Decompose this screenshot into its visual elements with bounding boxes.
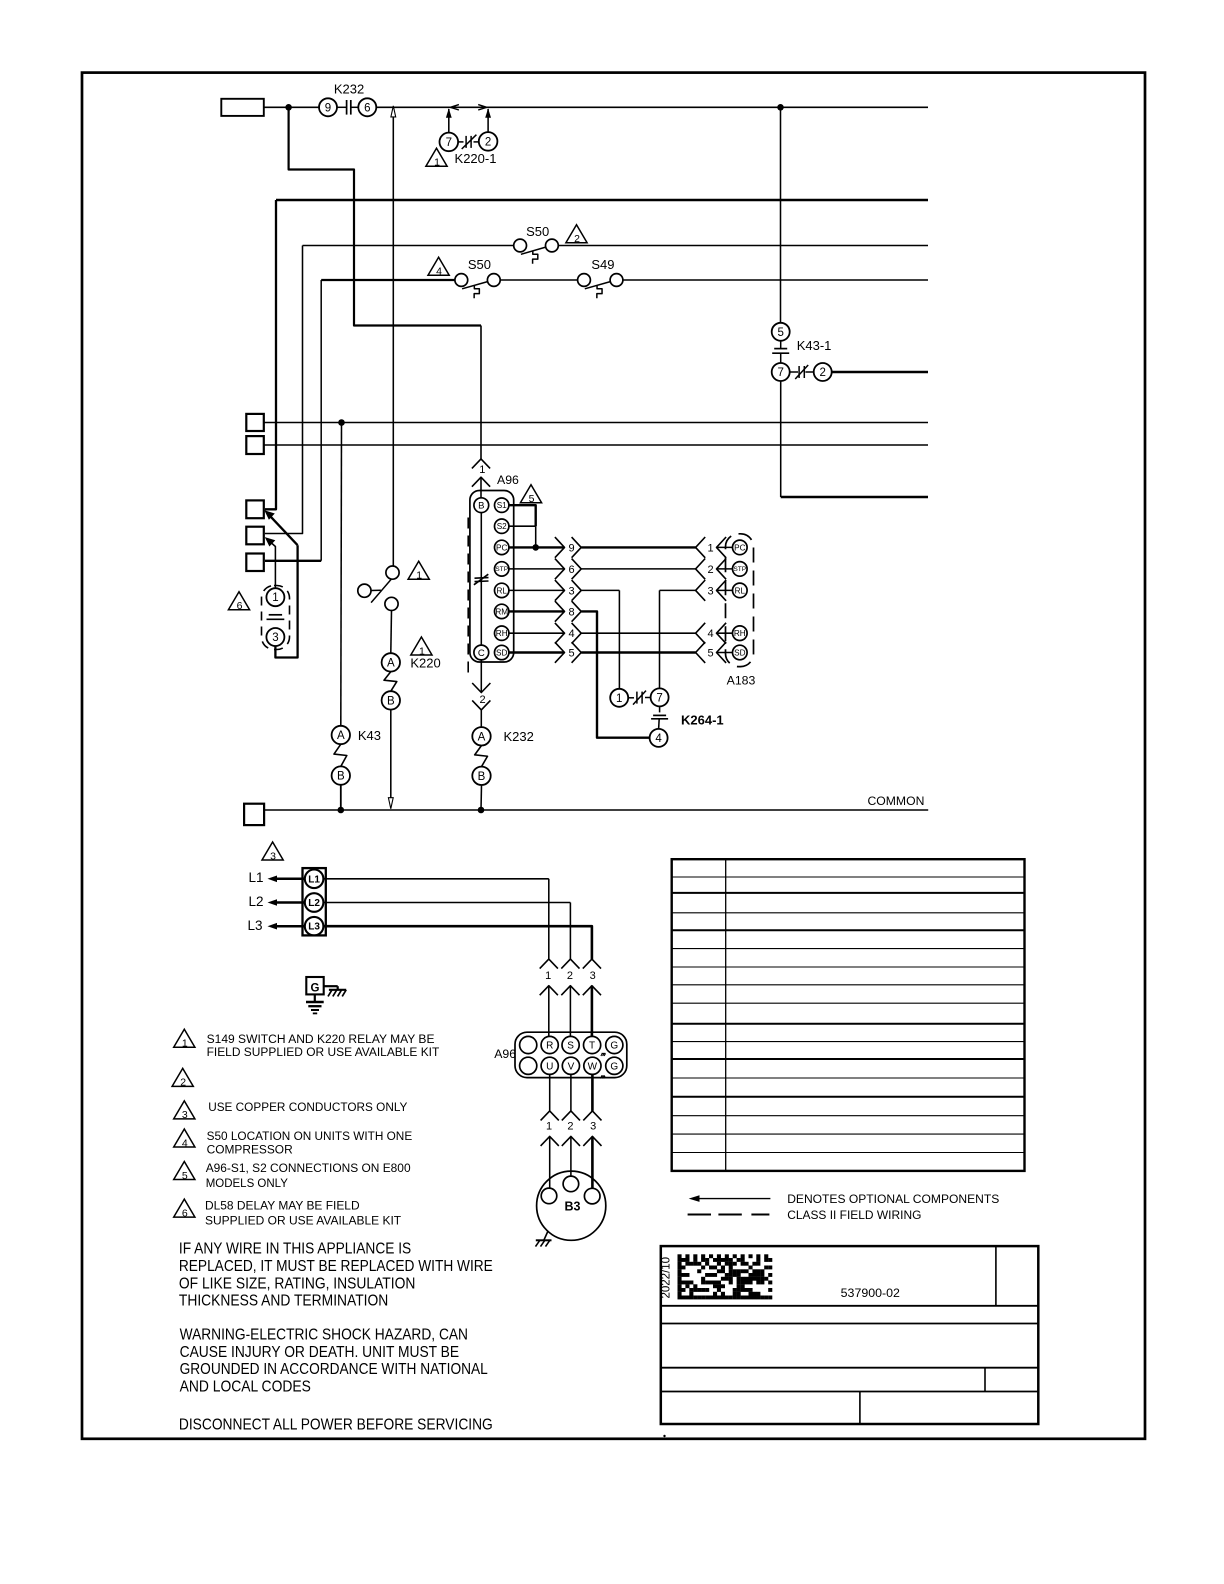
label A183 xyxy=(727,674,756,688)
bus wire COMMON xyxy=(264,809,928,811)
warning paragraph 2 xyxy=(180,1327,488,1396)
relay contact K264-1 pin 1 xyxy=(610,689,628,707)
DL58 capacitor bars xyxy=(267,615,285,620)
connector A96 lower body xyxy=(515,1032,627,1077)
svg-text:A: A xyxy=(337,730,345,742)
svg-text:S50: S50 xyxy=(468,257,491,272)
svg-text:COMPRESSOR: COMPRESSOR xyxy=(207,1143,293,1157)
svg-text:L2: L2 xyxy=(308,898,320,909)
wire U to B3 pin1 xyxy=(549,1074,551,1111)
svg-text:OF LIKE SIZE, RATING, INSULATI: OF LIKE SIZE, RATING, INSULATION xyxy=(179,1276,416,1293)
A96 pin T xyxy=(584,1036,601,1053)
label K43-1 xyxy=(797,338,832,353)
note triangle 3 xyxy=(174,1101,195,1121)
svg-text:6: 6 xyxy=(237,600,243,612)
wire K220-1 pin2 to bus w/ arrow xyxy=(485,108,491,132)
svg-text:S: S xyxy=(567,1041,574,1052)
harness row STP: wire + plug chevrons pin 6 xyxy=(509,559,581,580)
note triangle 1 xyxy=(174,1029,195,1049)
legend table (empty) xyxy=(672,859,1025,1171)
label A96 (upper connector) xyxy=(497,473,519,487)
svg-text:1: 1 xyxy=(546,1121,552,1133)
note triangle 1 at S149 xyxy=(408,561,429,581)
svg-text:CLASS II FIELD WIRING: CLASS II FIELD WIRING xyxy=(787,1208,921,1222)
junction dot K232 at COMMON xyxy=(478,807,485,814)
legend text class II xyxy=(787,1208,921,1222)
bus wire row A (thick) xyxy=(276,199,928,202)
svg-text:B: B xyxy=(387,695,395,707)
harness row STP: receptacle chevrons pin 2 xyxy=(696,559,733,580)
svg-text:PC: PC xyxy=(734,543,745,552)
bus wire row D xyxy=(264,422,928,424)
drawing border frame xyxy=(82,73,1145,1439)
note 3 text xyxy=(208,1100,407,1114)
bus wire row B xyxy=(303,245,929,247)
legend text optional xyxy=(787,1192,999,1206)
svg-text:A: A xyxy=(387,657,395,669)
svg-text:1: 1 xyxy=(545,970,551,982)
A96 pin C xyxy=(474,645,489,660)
contact symbol K264-1 xyxy=(628,691,650,705)
svg-text:4: 4 xyxy=(436,266,442,278)
relay contact K264-1 pin 4 xyxy=(650,729,668,747)
A183 pin RH xyxy=(733,626,748,641)
harness wire RM to K264-1 pin4 (thick) xyxy=(581,611,649,737)
svg-text:1: 1 xyxy=(707,542,713,554)
label B3 xyxy=(565,1200,581,1214)
relay contact K264-1 pin 7 xyxy=(651,688,669,706)
junction dot top bus to K43-1 xyxy=(777,104,784,111)
svg-text:G: G xyxy=(610,1061,618,1072)
switch S149 left contact xyxy=(358,584,381,597)
relay coil K232 terminal B xyxy=(472,767,490,785)
A96 pin S1 xyxy=(495,498,509,512)
junction dot S1/S2 on PC wire xyxy=(532,544,539,551)
svg-text:3: 3 xyxy=(707,585,713,597)
A96 pin PC xyxy=(495,540,509,554)
terminal box TB1 xyxy=(221,99,263,116)
switch S50 (row B) xyxy=(514,224,559,264)
relay coil K232 terminal A xyxy=(472,727,490,745)
svg-text:COMMON: COMMON xyxy=(868,794,925,808)
svg-text:G: G xyxy=(311,983,320,995)
mini chassis ground at G upper xyxy=(601,1054,606,1057)
svg-text:5: 5 xyxy=(777,327,783,339)
svg-text:K232: K232 xyxy=(334,82,364,97)
harness row RL: wire + plug chevrons pin 3 xyxy=(509,580,581,601)
svg-text:B: B xyxy=(478,501,484,512)
A183 pin STP xyxy=(733,562,748,577)
relay coil K43 terminal A xyxy=(332,726,350,744)
relay contact K232 pin 6 xyxy=(358,98,376,116)
svg-text:537900-02: 537900-02 xyxy=(841,1286,900,1300)
A96 pin W xyxy=(584,1057,601,1074)
svg-text:RH: RH xyxy=(496,629,508,638)
wire row B to square terminal 2 xyxy=(265,246,303,534)
wire K232 coil B to COMMON xyxy=(480,785,483,810)
svg-text:5: 5 xyxy=(568,648,574,660)
svg-text:5: 5 xyxy=(182,1170,188,1182)
svg-text:WARNING-ELECTRIC SHOCK HAZARD,: WARNING-ELECTRIC SHOCK HAZARD, CAN xyxy=(180,1327,468,1344)
A96 pin S xyxy=(562,1036,579,1053)
label A96 (lower connector) xyxy=(494,1047,516,1061)
svg-text:2: 2 xyxy=(819,367,825,379)
svg-text:K232: K232 xyxy=(504,729,534,744)
wire K220-1 pin7 to bus w/ arrow xyxy=(446,108,452,132)
title block date 2022/10 xyxy=(661,1257,673,1299)
svg-text:C: C xyxy=(478,648,485,659)
A96 pin blank upper xyxy=(520,1036,537,1053)
capacitor-style contact bars K232 xyxy=(337,100,358,115)
node junction dot xyxy=(285,104,292,111)
svg-text:FIELD SUPPLIED OR USE AVAILABL: FIELD SUPPLIED OR USE AVAILABLE KIT xyxy=(207,1045,440,1059)
connector A96 upper body xyxy=(470,491,514,663)
svg-text:3: 3 xyxy=(272,632,278,644)
svg-text:S149 SWITCH AND K220 RELAY MAY: S149 SWITCH AND K220 RELAY MAY BE xyxy=(207,1032,435,1046)
B3 pin 1 xyxy=(541,1188,557,1204)
svg-text:1: 1 xyxy=(416,570,422,582)
svg-text:5: 5 xyxy=(707,648,713,660)
harness row PC: wire + plug chevrons pin 9 xyxy=(509,537,581,558)
wire L1 to A96-R xyxy=(323,879,548,959)
A96 pin RM xyxy=(495,604,509,618)
mini chassis ground at G lower xyxy=(600,1076,605,1079)
svg-text:3: 3 xyxy=(590,1121,596,1133)
svg-text:1: 1 xyxy=(272,592,278,604)
connector A96 plug dashed edge xyxy=(467,518,469,678)
B3 chassis ground xyxy=(536,1231,552,1247)
A96 pin RL xyxy=(495,583,509,597)
label K43 xyxy=(358,728,381,743)
square terminal 1 xyxy=(246,500,263,518)
A96 pin G lower xyxy=(606,1057,623,1074)
svg-text:W: W xyxy=(588,1061,598,1072)
wire L2 to A96-S xyxy=(323,903,570,960)
harness row RH: wire + plug chevrons pin 4 xyxy=(509,623,581,644)
svg-text:K43: K43 xyxy=(358,728,381,743)
wire square2 to DL58 pin1 w/ arrow xyxy=(265,537,276,588)
harness wire PC row (thick) xyxy=(581,546,695,548)
relay contact K220-1 pin 7 xyxy=(440,133,459,152)
A96 pin S2 xyxy=(495,519,509,533)
svg-text:IF ANY WIRE IN THIS APPLIANCE: IF ANY WIRE IN THIS APPLIANCE IS xyxy=(179,1240,411,1257)
svg-text:B3: B3 xyxy=(565,1200,581,1214)
harness row RM: wire + plug chevrons pin 8 xyxy=(509,601,581,622)
bus wire row C xyxy=(321,279,928,281)
svg-text:K43-1: K43-1 xyxy=(797,338,832,353)
svg-text:A183: A183 xyxy=(727,674,756,688)
switch S49 (row C) xyxy=(578,257,623,299)
svg-text:5: 5 xyxy=(529,493,535,505)
ground terminal G box xyxy=(306,977,323,995)
coil K220 xyxy=(384,672,397,692)
svg-text:2: 2 xyxy=(567,970,573,982)
svg-text:9: 9 xyxy=(325,102,331,114)
wire capacitor to K264-1 pin 4 xyxy=(658,719,661,729)
note triangle 5 at A96 xyxy=(520,485,541,505)
connector A183 dashed outline xyxy=(726,534,754,667)
wire node down-right to A96 branch xyxy=(289,107,481,459)
svg-text:3: 3 xyxy=(182,1109,188,1121)
contact symbol K220-1 xyxy=(458,135,479,149)
svg-text:T: T xyxy=(589,1041,595,1052)
wire row A to square terminal 1 xyxy=(265,200,276,509)
svg-text:AND LOCAL CODES: AND LOCAL CODES xyxy=(180,1378,311,1395)
svg-text:S50: S50 xyxy=(526,224,549,239)
svg-text:G: G xyxy=(610,1041,618,1052)
svg-text:SD: SD xyxy=(734,648,745,657)
A183 pin PC xyxy=(733,540,748,555)
square terminal B xyxy=(246,436,263,454)
svg-text:S2: S2 xyxy=(497,522,507,531)
harness wire RH row xyxy=(581,632,695,634)
field wire L3 w/ arrow xyxy=(268,923,305,930)
note triangle 1 at K220 coil xyxy=(411,637,432,657)
svg-text:S50 LOCATION ON UNITS WITH ONE: S50 LOCATION ON UNITS WITH ONE xyxy=(207,1129,413,1143)
wire-break symbol on B-C xyxy=(474,574,489,585)
A96 pin V xyxy=(562,1057,579,1074)
svg-text:U: U xyxy=(546,1061,553,1072)
square terminal 3 xyxy=(246,554,263,572)
harness row PC: receptacle chevrons pin 1 xyxy=(696,537,733,558)
square terminal A xyxy=(246,414,263,431)
svg-text:3: 3 xyxy=(590,970,596,982)
wire K43-1 pin7 down and right (thick) xyxy=(781,381,928,497)
A96 internal wire B-C xyxy=(480,513,482,646)
svg-text:2: 2 xyxy=(707,564,713,576)
svg-text:4: 4 xyxy=(707,628,713,640)
svg-text:THICKNESS AND TERMINATION: THICKNESS AND TERMINATION xyxy=(179,1292,388,1309)
svg-text:6: 6 xyxy=(568,564,574,576)
coil K232 xyxy=(475,746,488,767)
svg-text:K220-1: K220-1 xyxy=(455,151,497,166)
A96 pin RH xyxy=(495,626,509,640)
wire TB1 to node xyxy=(264,106,320,108)
optional-tap arrowheads on top bus xyxy=(450,105,486,110)
field wire L2 w/ arrow xyxy=(268,899,305,906)
switch S149 top contact xyxy=(386,566,399,579)
A96 pin U xyxy=(541,1057,558,1074)
svg-text:STP: STP xyxy=(495,566,508,573)
harness wire RL row left to K264-1 xyxy=(581,590,619,688)
DL58 delay pin 3 xyxy=(266,628,284,646)
svg-text:A96-S1, S2 CONNECTIONS ON E800: A96-S1, S2 CONNECTIONS ON E800 xyxy=(206,1161,411,1175)
wire G to chassis ground xyxy=(324,986,338,990)
svg-text:2: 2 xyxy=(180,1077,186,1089)
label K232 (coil) xyxy=(504,729,534,744)
wire A96 pin C to plug pin 2 chevrons xyxy=(472,660,490,727)
svg-text:L3: L3 xyxy=(308,922,320,933)
wire S149 to K220 coil xyxy=(390,611,393,654)
note triangle 4 at S50 xyxy=(428,257,449,277)
label L3 xyxy=(248,918,263,933)
svg-text:STP: STP xyxy=(733,566,746,573)
svg-text:2: 2 xyxy=(567,1121,573,1133)
svg-text:REPLACED, IT MUST BE REPLACED: REPLACED, IT MUST BE REPLACED WITH WIRE xyxy=(179,1258,493,1275)
wire top node to K43-1 pin 5 xyxy=(780,107,782,322)
relay contact K232 pin 9 xyxy=(319,98,337,116)
junction dot row D to K43 xyxy=(338,419,345,426)
svg-text:S1: S1 xyxy=(497,501,507,510)
A96 pin blank lower xyxy=(520,1057,537,1074)
bus wire row E xyxy=(264,444,928,446)
svg-text:DL58 DELAY MAY BE FIELD: DL58 DELAY MAY BE FIELD xyxy=(205,1198,360,1212)
DL58 delay pin 1 xyxy=(266,588,284,606)
note triangle 2 xyxy=(172,1068,193,1088)
earth ground symbol xyxy=(306,1002,324,1013)
note triangle 6 at DL58 xyxy=(228,592,249,612)
contact symbol K43-1 7-2 xyxy=(790,365,814,379)
svg-text:9: 9 xyxy=(568,542,574,554)
B3 pin 2 xyxy=(563,1176,579,1192)
wire V to B3 pin2 xyxy=(570,1074,572,1111)
svg-text:A96: A96 xyxy=(494,1047,516,1061)
svg-text:4: 4 xyxy=(568,628,574,640)
svg-text:1: 1 xyxy=(616,693,622,705)
wire L3 to A96-T (thick) xyxy=(323,926,592,959)
wire row C to square terminal 3 xyxy=(265,280,321,561)
relay coil K220 terminal B xyxy=(382,691,400,709)
note 1 text xyxy=(207,1032,440,1059)
contact bars K43-1 xyxy=(772,341,789,363)
svg-text:1: 1 xyxy=(434,157,440,169)
svg-text:DENOTES OPTIONAL COMPONENTS: DENOTES OPTIONAL COMPONENTS xyxy=(787,1192,999,1206)
relay contact K43-1 pin 7 xyxy=(772,363,790,381)
legend optional-components arrow xyxy=(689,1195,771,1202)
note 5 text xyxy=(206,1161,411,1190)
svg-text:B: B xyxy=(478,771,486,783)
svg-text:V: V xyxy=(568,1061,575,1072)
relay coil K220 terminal A xyxy=(382,653,400,671)
A96 pin B xyxy=(474,498,489,513)
wire G to earth ground xyxy=(314,994,316,1001)
harness wire SD row (thick) xyxy=(581,651,695,653)
relay coil K43 terminal B xyxy=(332,766,350,784)
TB2 terminal L1 xyxy=(305,870,324,889)
svg-text:S49: S49 xyxy=(591,257,614,272)
svg-text:3: 3 xyxy=(568,585,574,597)
svg-text:L1: L1 xyxy=(308,874,320,885)
label K220-1 xyxy=(455,151,497,166)
A96 pin R xyxy=(541,1036,558,1053)
svg-text:7: 7 xyxy=(656,692,662,704)
wire K43 coil B to COMMON xyxy=(340,785,342,810)
title block part number xyxy=(841,1286,900,1300)
chassis ground symbol xyxy=(328,990,346,997)
svg-text:A: A xyxy=(478,731,486,743)
harness row RH: receptacle chevrons pin 4 xyxy=(696,623,733,644)
harness row RL: receptacle chevrons pin 3 xyxy=(696,580,733,601)
svg-text:4: 4 xyxy=(655,733,662,745)
note triangle 6 xyxy=(174,1199,195,1219)
A183 pin RL xyxy=(733,583,748,598)
coil K43 xyxy=(334,744,347,766)
label K264-1 xyxy=(681,713,724,728)
svg-text:RM: RM xyxy=(495,607,508,616)
harness row SD: wire + plug chevrons pin 5 xyxy=(509,642,581,663)
switch S149 bottom contact xyxy=(385,597,398,610)
svg-text:1: 1 xyxy=(182,1038,188,1050)
note triangle 4 xyxy=(174,1129,195,1149)
svg-text:RL: RL xyxy=(496,586,507,595)
title block grid xyxy=(661,1246,1039,1424)
label L1 xyxy=(249,870,264,885)
wire to A96 plug pin 1 chevrons xyxy=(472,459,490,499)
motor B3 body xyxy=(537,1171,606,1240)
switch S149 blade xyxy=(371,579,391,602)
svg-text:6: 6 xyxy=(182,1207,188,1219)
label L2 xyxy=(249,894,264,909)
svg-text:L1: L1 xyxy=(249,870,264,885)
square terminal COMMON xyxy=(244,804,264,825)
legend class II dashed line xyxy=(688,1214,770,1216)
svg-text:4: 4 xyxy=(182,1137,188,1149)
note 6 text xyxy=(205,1198,402,1227)
svg-text:A96: A96 xyxy=(497,473,519,487)
warning paragraph 3 xyxy=(179,1417,493,1434)
warning paragraph 1 xyxy=(179,1240,493,1309)
wire top bus xyxy=(376,106,928,108)
wire row D to K43 coil xyxy=(340,423,343,726)
note 4 text xyxy=(207,1129,413,1157)
terminal block TB2 body xyxy=(303,868,326,935)
A183 pin SD xyxy=(733,645,748,660)
svg-text:3: 3 xyxy=(270,850,276,862)
wire K220 coil B to COMMON w/ arrow xyxy=(388,710,393,809)
relay contact K43-1 pin 5 xyxy=(772,323,790,341)
note triangle 2 at S50 xyxy=(566,225,587,245)
svg-text:RH: RH xyxy=(734,629,746,638)
field wire L1 w/ arrow xyxy=(268,876,305,883)
svg-text:PC: PC xyxy=(496,543,507,552)
svg-text:6: 6 xyxy=(364,102,370,114)
label K220 xyxy=(410,655,440,670)
svg-text:RL: RL xyxy=(735,586,746,595)
note triangle 3 at power entry xyxy=(262,842,283,862)
power plug chevrons 1-2-3 (upper) xyxy=(540,959,601,1036)
svg-text:B: B xyxy=(337,771,345,783)
harness row SD: receptacle chevrons pin 5 xyxy=(696,642,733,663)
wire DL58 pin3 to square1 w/ arrow (thick) xyxy=(264,510,297,657)
wire K43-1 pin2 output (thick) xyxy=(832,371,928,374)
A96 pin G upper xyxy=(606,1036,623,1053)
harness wire STP row xyxy=(581,568,695,570)
stray mark below title block xyxy=(663,1435,665,1437)
wire W to B3 pin3 (thick) xyxy=(591,1074,594,1111)
svg-text:K220: K220 xyxy=(410,655,440,670)
relay contact K43-1 pin 2 xyxy=(814,363,832,381)
2D barcode xyxy=(678,1254,773,1299)
svg-text:MODELS ONLY: MODELS ONLY xyxy=(206,1176,288,1190)
note triangle 1 at K220-1 xyxy=(426,148,447,168)
svg-text:2: 2 xyxy=(479,694,485,706)
svg-text:USE COPPER CONDUCTORS ONLY: USE COPPER CONDUCTORS ONLY xyxy=(208,1100,407,1114)
relay contact K220-1 pin 2 xyxy=(479,132,498,151)
svg-text:L3: L3 xyxy=(248,918,263,933)
B3 pin 3 xyxy=(584,1188,600,1204)
capacitor bars K264-1 xyxy=(651,715,668,718)
harness wire RL row right from K264-1 xyxy=(660,590,696,688)
svg-text:7: 7 xyxy=(446,137,452,149)
DL58 dashed outline xyxy=(262,586,290,650)
A96 pin STP xyxy=(495,562,509,576)
svg-text:SUPPLIED OR USE AVAILABLE KIT: SUPPLIED OR USE AVAILABLE KIT xyxy=(205,1214,402,1228)
wire K220 branch vertical w/ open arrow xyxy=(391,106,396,566)
TB2 terminal L3 xyxy=(305,917,324,936)
svg-text:K264-1: K264-1 xyxy=(681,713,724,728)
label K232 xyxy=(334,82,364,97)
svg-text:8: 8 xyxy=(568,606,574,618)
